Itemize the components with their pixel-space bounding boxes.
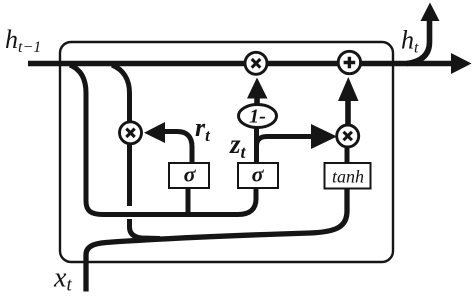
arrowhead up into add node: [338, 77, 359, 101]
svg-text:zt: zt: [229, 129, 247, 162]
svg-text:ht: ht: [401, 26, 419, 57]
wire: branch up to h(t) top output: [407, 20, 430, 64]
GRU cell outer box: [60, 42, 393, 262]
svg-text:σ: σ: [184, 162, 197, 187]
tanh box: [325, 163, 371, 189]
wire: main horizontal bus h(t-1) -> h(t): [28, 61, 455, 67]
wire: z branch right toward candidate multiply: [257, 137, 313, 147]
svg-text:ht−1: ht−1: [5, 25, 41, 56]
wire: sigma-r output up-left into reset multiply node: [164, 132, 192, 164]
sigma box (update gate): [238, 163, 278, 188]
reset multiply node: [120, 122, 142, 144]
svg-text:rt: rt: [195, 113, 211, 145]
wire: left branch of h(t-1) down and along bottom into sigma gates (bus1): [70, 65, 256, 215]
arrowhead into reset multiply: [144, 122, 165, 143]
svg-text:1-: 1-: [249, 106, 266, 128]
1- oval: [239, 105, 277, 128]
arrowhead into candidate multiply: [311, 124, 337, 149]
wire: after crossing, curving right merging into bus2: [130, 219, 161, 239]
sigma box (reset gate): [169, 163, 209, 188]
svg-text:σ: σ: [252, 162, 265, 187]
wire: tanh output up to candidate multiply: [345, 146, 350, 163]
output arrowhead right: [451, 53, 472, 74]
add node on bus: [338, 51, 360, 73]
candidate multiply node: [337, 125, 359, 147]
multiply node on bus (update gate): [245, 52, 267, 74]
arrowhead up into update multiply: [247, 78, 268, 99]
wire: 1- oval up to update multiply on bus: [254, 96, 260, 106]
wire: x(t) input rising and running right into tanh (bus2): [86, 187, 347, 292]
wire: below reset multiply node down to crossing of bus1: [127, 143, 132, 206]
svg-text:tanh: tanh: [332, 167, 364, 187]
svg-text:xt: xt: [53, 263, 72, 296]
wire: sigma-r bottom connector to bus1: [186, 187, 191, 214]
output arrowhead up: [421, 3, 440, 22]
wire: second branch of h(t-1) down through reset multiply node: [112, 65, 130, 123]
wire: sigma-z output up to 1- oval: [254, 126, 259, 163]
wire: candidate multiply up to add node: [345, 99, 351, 126]
